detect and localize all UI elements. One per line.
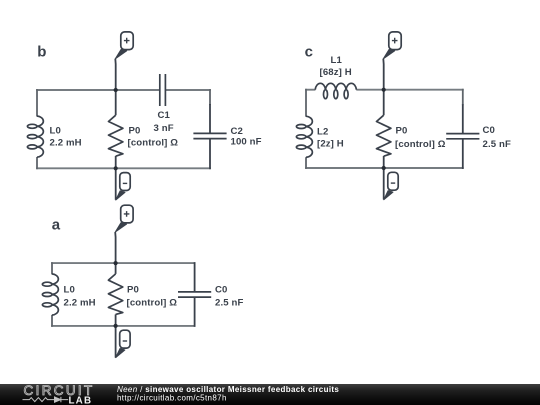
svg-text:P0: P0 xyxy=(129,126,141,137)
svg-text:L2: L2 xyxy=(317,127,328,138)
svg-text:C0: C0 xyxy=(483,125,496,136)
capacitor C2 (circuit b, right branch) xyxy=(193,132,226,134)
svg-text:L0: L0 xyxy=(50,126,61,137)
lead: c C0 bottom stub xyxy=(462,139,464,169)
terminal + (circuit c) xyxy=(389,32,401,50)
wire: b left vertical above coil xyxy=(36,89,38,116)
wire: c left vertical above L2 xyxy=(305,89,307,117)
wire: b top rail right of C1 xyxy=(166,89,211,91)
lead: c minus terminal xyxy=(383,168,385,200)
lead: b minus terminal xyxy=(115,168,117,200)
wire: a top rail xyxy=(51,262,195,264)
terminal + (circuit a) xyxy=(121,205,133,223)
terminal - (circuit a) xyxy=(120,330,130,348)
node: c bottom junction xyxy=(382,166,386,170)
lead: c plus terminal xyxy=(382,59,384,90)
wire: b bottom rail xyxy=(36,167,211,169)
svg-text:P0: P0 xyxy=(127,285,139,296)
svg-text:2.5 nF: 2.5 nF xyxy=(483,139,511,150)
svg-text:C1: C1 xyxy=(158,110,171,121)
svg-text:2.5 nF: 2.5 nF xyxy=(215,298,243,309)
svg-text:c: c xyxy=(305,44,313,61)
node: b top junction xyxy=(114,88,118,92)
svg-text:[2z] H: [2z] H xyxy=(317,139,344,150)
resistor P0 (circuit b) xyxy=(109,115,123,156)
node: c top junction xyxy=(382,88,386,92)
wire: b left vertical below coil xyxy=(36,157,38,169)
lead: b resistor bottom xyxy=(115,156,117,168)
wire: c top rail right of L1 xyxy=(356,89,463,91)
svg-text:C0: C0 xyxy=(215,285,228,296)
svg-text:[control] Ω: [control] Ω xyxy=(128,138,179,149)
lead: C2 bottom stub xyxy=(209,139,211,170)
inductor L1 (circuit c, series in top rail) xyxy=(315,83,356,98)
lead: a C0 top stub xyxy=(194,262,196,292)
svg-text:3 nF: 3 nF xyxy=(154,123,174,134)
svg-text:C2: C2 xyxy=(231,126,244,137)
svg-text:[control] Ω: [control] Ω xyxy=(395,139,446,150)
inductor L0 (circuit a) xyxy=(42,274,58,315)
node: a top junction xyxy=(114,261,118,265)
wire: c left vertical below L2 xyxy=(305,157,307,169)
wire: b right vertical above C2 stub xyxy=(209,89,211,105)
node: a bottom junction xyxy=(114,324,118,328)
capacitor C1 (circuit b, series in top rail) xyxy=(159,74,161,106)
wire: a left vertical above coil xyxy=(51,262,53,274)
node: b bottom junction xyxy=(114,166,118,170)
lead: a resistor bottom xyxy=(115,314,117,326)
lead: c resistor bottom xyxy=(383,156,385,168)
lead: b plus terminal xyxy=(114,59,116,90)
wire: b top rail left of C1 xyxy=(36,89,160,91)
CircuitLab logo: resistor squiggle xyxy=(23,398,54,402)
svg-text:http://circuitlab.com/c5tn87h: http://circuitlab.com/c5tn87h xyxy=(117,393,227,402)
lead: a plus terminal xyxy=(114,232,116,263)
terminal - (circuit c) xyxy=(388,172,398,190)
svg-text:a: a xyxy=(52,217,61,234)
wire: c top rail left of L1 xyxy=(305,89,315,91)
lead: a C0 bottom stub xyxy=(194,297,196,327)
resistor P0 (circuit c) xyxy=(377,115,391,156)
svg-text:b: b xyxy=(37,44,46,61)
lead: c resistor top xyxy=(383,90,385,116)
wire: c right vertical above C0 stub xyxy=(462,89,464,105)
wire: a bottom rail xyxy=(51,325,195,327)
svg-text:[control] Ω: [control] Ω xyxy=(127,298,178,309)
svg-text:L0: L0 xyxy=(64,285,75,296)
svg-text:LAB: LAB xyxy=(69,396,93,405)
capacitor C0 (circuit c, right branch) xyxy=(446,133,479,135)
wire: a left vertical below coil xyxy=(51,315,53,327)
wire: c bottom rail xyxy=(305,167,464,169)
svg-text:2.2 mH: 2.2 mH xyxy=(64,298,96,309)
resistor P0 (circuit a) xyxy=(108,274,122,315)
svg-text:P0: P0 xyxy=(396,126,408,137)
svg-text:[68z] H: [68z] H xyxy=(320,67,352,78)
lead: a minus terminal xyxy=(115,326,117,358)
inductor L2 (circuit c, left branch) xyxy=(296,116,312,157)
CircuitLab logo: diode xyxy=(54,397,69,402)
capacitor C0 (circuit a, right branch) xyxy=(178,291,211,293)
svg-text:2.2 mH: 2.2 mH xyxy=(50,138,82,149)
inductor L0 (circuit b) xyxy=(27,116,43,157)
lead: a resistor top xyxy=(115,263,117,274)
svg-text:L1: L1 xyxy=(331,55,343,66)
lead: C2 top stub xyxy=(209,104,211,133)
lead: b resistor top xyxy=(115,90,117,115)
lead: c C0 top stub xyxy=(462,104,464,133)
terminal - (circuit b) xyxy=(120,173,130,191)
svg-text:100 nF: 100 nF xyxy=(231,137,262,148)
terminal + (circuit b) xyxy=(121,32,133,50)
